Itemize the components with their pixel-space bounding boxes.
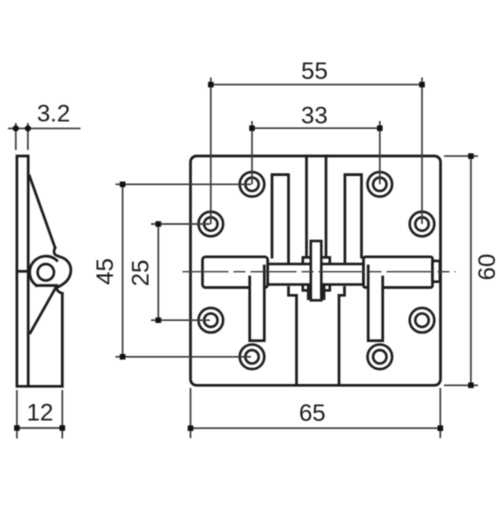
dim 33 extension right: [379, 121, 381, 184]
center strip line right: [325, 156, 328, 257]
hole bottom-left outer: [240, 345, 265, 370]
center strip line left: [305, 156, 308, 257]
svg-text:25: 25: [127, 260, 154, 287]
dim 60 extension bottom: [444, 384, 478, 386]
square 60 top: [468, 153, 474, 159]
dim 33 extension left: [251, 121, 253, 184]
square 45 top: [120, 182, 126, 188]
plate outline: [191, 156, 441, 385]
dim 12 extension right: [61, 390, 63, 439]
dim 60 extension top: [444, 155, 478, 157]
dim 55 extension right: [421, 78, 423, 225]
square 33 left: [249, 125, 255, 131]
square 60 bottom: [468, 383, 474, 389]
upper-right arm slot: [345, 175, 362, 264]
center pin: [311, 241, 322, 300]
step below bar left: [289, 288, 297, 296]
tongue right edge: [338, 295, 341, 384]
knuckle hook and right bulge: [54, 248, 71, 294]
square 65 right: [438, 425, 444, 431]
dot 3.2 left: [13, 125, 19, 131]
lower-right arm slot fill: [369, 278, 381, 340]
pin dark flank left: [307, 286, 311, 301]
dim 45 extension top: [116, 183, 252, 185]
square 25 top: [156, 221, 162, 227]
hole bottom-right outer: [368, 345, 393, 370]
dim 12 line: [17, 427, 62, 429]
hole mid-right-upper outer: [410, 212, 435, 237]
square 65 left: [188, 425, 194, 431]
bar end cap: [433, 261, 440, 282]
square 33 right: [377, 125, 383, 131]
square 55 right: [419, 82, 425, 88]
hole mid-right-upper inner: [415, 217, 428, 230]
svg-text:3.2: 3.2: [37, 101, 70, 128]
pivot crossing line: [17, 270, 28, 273]
square 25 bottom: [156, 317, 162, 323]
dim 12 extension left: [16, 390, 18, 439]
svg-text:45: 45: [92, 258, 119, 285]
svg-text:55: 55: [301, 58, 328, 85]
dim 25 extension top: [151, 223, 210, 225]
dim 3.2 leader line: [8, 127, 81, 129]
bar left knob: [203, 257, 268, 288]
hole bottom-right inner: [373, 350, 386, 363]
hole mid-right-lower inner: [415, 314, 428, 327]
square 12 left: [14, 425, 20, 431]
hole top-left inner: [245, 178, 258, 191]
tongue left edge: [295, 295, 298, 384]
dim 33 line: [252, 127, 380, 129]
dim 60 line: [470, 156, 472, 385]
svg-text:12: 12: [27, 400, 54, 427]
dim 3.2 extension right: [27, 123, 29, 150]
hole top-left outer: [240, 172, 265, 197]
upper-left arm slot: [272, 175, 289, 264]
bar middle shaft: [268, 264, 364, 285]
hole bottom-left inner: [245, 350, 258, 363]
hole mid-left-lower inner: [204, 314, 217, 327]
square 45 bottom: [120, 354, 126, 360]
svg-text:60: 60: [474, 254, 500, 281]
lower-right arm slot: [368, 266, 383, 341]
dim 65 extension left: [190, 388, 192, 438]
upper diagonal: [30, 176, 56, 248]
holes: [199, 172, 435, 369]
hole mid-left-upper inner: [204, 217, 217, 230]
step below bar right: [339, 288, 345, 296]
hole mid-right-lower outer: [410, 308, 435, 333]
knuckle bottom chord: [36, 284, 56, 287]
pin dark flank right: [321, 286, 325, 301]
lower-left arm slot fill: [251, 278, 263, 340]
square 12 right: [60, 425, 66, 431]
square 55 left: [208, 82, 214, 88]
side lower-body right edge: [61, 294, 64, 387]
hole mid-left-lower outer: [199, 308, 224, 333]
dim 25 line: [157, 224, 159, 320]
hole top-right inner: [373, 178, 386, 191]
dot 3.2 right: [25, 125, 31, 131]
dim 25 extension bottom: [151, 319, 210, 321]
hole mid-left-upper outer: [199, 212, 224, 237]
dim 65 extension right: [439, 388, 441, 438]
dimension terminators (filled squares / dots): [13, 82, 474, 431]
svg-text:33: 33: [301, 103, 328, 130]
dim 45 line: [122, 184, 124, 356]
bar right knob: [364, 257, 433, 288]
dim 65 line: [191, 427, 441, 429]
dim 55 extension left: [210, 78, 212, 225]
lower-left arm slot: [250, 266, 265, 341]
knuckle outer arc: [30, 256, 57, 285]
lower diagonal: [30, 287, 56, 333]
pivot hole: [38, 264, 54, 280]
dim 3.2 extension left: [15, 123, 17, 150]
center bracket: [303, 257, 330, 290]
hole top-right outer: [368, 172, 393, 197]
dim 45 extension bottom: [116, 356, 252, 358]
dim 55 line: [211, 84, 422, 86]
centerline of bar: [183, 271, 456, 273]
svg-text:65: 65: [299, 400, 326, 427]
side plate outline: [17, 156, 62, 386]
